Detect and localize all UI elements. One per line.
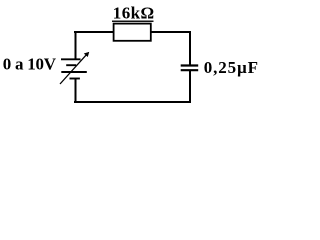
- battery source plate 2 short: [66, 64, 76, 66]
- wire right vertical upper: [189, 31, 191, 65]
- battery source plate 1 long: [61, 58, 81, 60]
- capacitor C bottom plate: [181, 69, 199, 71]
- svg-text:0,25µF: 0,25µF: [204, 58, 259, 77]
- svg-text:16kΩ: 16kΩ: [113, 4, 155, 23]
- underline of 16kOhm label: [112, 20, 154, 22]
- wire top right horizontal: [150, 31, 191, 33]
- resistor R 16k box: [114, 24, 151, 41]
- wire top left horizontal: [74, 31, 114, 33]
- battery source plate 3 long: [61, 71, 87, 73]
- variable source arrow head: [84, 52, 88, 56]
- wire right vertical lower: [189, 71, 191, 104]
- battery source plate 4 short: [70, 78, 80, 80]
- variable source arrow shaft: [60, 55, 86, 84]
- svg-text:0 a 10V: 0 a 10V: [3, 55, 57, 74]
- wire left vertical lower: [75, 79, 77, 103]
- wire left vertical upper: [75, 31, 77, 60]
- wire bottom horizontal: [74, 101, 191, 103]
- capacitor C top plate: [181, 64, 199, 66]
